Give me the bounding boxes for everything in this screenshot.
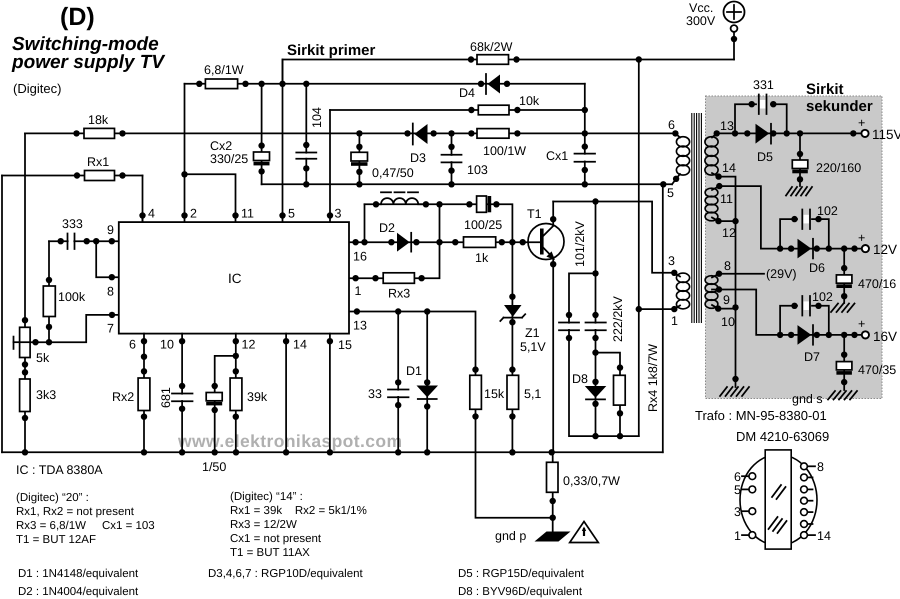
capacitor 331 loop [735, 78, 787, 133]
svg-text:220/160: 220/160 [816, 161, 861, 175]
svg-text:222/2kV: 222/2kV [611, 295, 625, 342]
IC TDA8380 body [119, 222, 349, 334]
svg-text:D1 : 1N4148/equivalent: D1 : 1N4148/equivalent [18, 568, 139, 580]
resistor 10k [478, 94, 540, 115]
svg-text:5k: 5k [36, 351, 50, 365]
terminal +16V [858, 317, 897, 344]
capacitor 101/2kV [559, 220, 587, 330]
wire: 12V output row (y=248.6) [777, 245, 862, 251]
wire: 33 cap column (x=398.2) [395, 312, 401, 456]
diode D4 [459, 74, 500, 100]
diode D1 [406, 364, 438, 399]
diode D7 [798, 325, 821, 364]
svg-text:10: 10 [160, 338, 174, 352]
svg-text:D3: D3 [410, 151, 426, 165]
svg-text:1: 1 [734, 529, 741, 543]
IC pin 15 label [338, 338, 352, 352]
svg-text:12V: 12V [873, 242, 897, 257]
wire: pin 8 to (29V) [719, 267, 797, 281]
svg-text:1: 1 [671, 314, 678, 328]
wire: IC pin 3 up to 10k row [327, 110, 333, 222]
resistor 39k [230, 378, 268, 411]
warning triangle [570, 522, 599, 543]
wire: 100k column (x=49) [46, 241, 52, 345]
svg-text:Rx2: Rx2 [112, 390, 134, 404]
wire: 0,33/0,7W column to gnd p (x=552.7) [550, 452, 556, 533]
svg-text:+: + [858, 317, 865, 331]
choke (transformer aux winding) [376, 192, 426, 204]
wire: Rx4 branch (x=620) [596, 353, 624, 440]
capacitor 103 [442, 155, 488, 177]
wire: 0,47/50 column (x=359.4) [356, 133, 362, 184]
capacitor 681 [159, 387, 193, 408]
IC pin 9 [107, 223, 114, 237]
diode D2 [379, 221, 411, 252]
svg-text:2: 2 [190, 207, 197, 221]
svg-text:14: 14 [293, 338, 307, 352]
transformer secondary winding 13-14 [705, 119, 736, 180]
wire: D1 column (x=427.2) [424, 312, 430, 456]
text diode equivalents row 2 [18, 586, 583, 598]
resistor 18k [84, 113, 115, 138]
svg-text:3: 3 [734, 505, 741, 519]
svg-text:15: 15 [338, 338, 352, 352]
terminal +115V [858, 116, 900, 142]
capacitor 102 (12V) loop [780, 204, 838, 249]
capacitor 104 [296, 107, 324, 159]
capacitor 470/16 [836, 249, 896, 303]
potentiometer 5k [20, 327, 50, 365]
svg-text:Cx2: Cx2 [210, 139, 232, 153]
capacitor Cx1 [546, 149, 595, 163]
IC pin 4 [143, 207, 156, 223]
resistor Rx2 [112, 378, 150, 411]
svg-text:100k: 100k [58, 290, 86, 304]
resistor 6,8/1W [204, 63, 244, 89]
IC pin 7 [107, 322, 114, 336]
svg-text:10k: 10k [519, 94, 540, 108]
transistor T1 [527, 202, 564, 261]
terminal +12V [858, 231, 897, 257]
wire: 222/2kV + D8 column (x=595.5) [592, 202, 598, 440]
wire: top rail from Sirkit primer corner to Vcc [283, 56, 735, 84]
wire: T1 collector to transformer pin 3 [550, 198, 674, 272]
svg-text:333: 333 [62, 217, 83, 231]
svg-text:Rx1 = 39k Rx2 = 5k1/1%: Rx1 = 39k Rx2 = 5k1/1% [230, 505, 367, 517]
transformer secondary winding 8-9-10 [705, 259, 735, 329]
wire: 6,8/1W / D4 row (y=83.8) [185, 81, 585, 87]
svg-text:470/16: 470/16 [858, 277, 896, 291]
svg-text:T1 = BUT 11AX: T1 = BUT 11AX [230, 547, 310, 559]
svg-text:8: 8 [817, 460, 824, 474]
wire: pin 12 stub [719, 220, 736, 222]
wire: T1 emitter down to bottom rail (x=553.2) [550, 258, 556, 452]
svg-text:0,47/50: 0,47/50 [372, 166, 414, 180]
resistor 100/1W [477, 129, 526, 158]
svg-text:3: 3 [335, 207, 342, 221]
svg-text:gnd p: gnd p [495, 529, 526, 543]
wire: pins 14+12+10 common to secondary ground (x=735.5) [719, 177, 739, 387]
capacitor 333 [62, 217, 83, 249]
wire: main rail 18k/D3/100 1W (y=133.4) to transformer pin 6 [25, 130, 675, 136]
svg-text:6,8/1W: 6,8/1W [204, 63, 244, 77]
IC pin 1 [355, 284, 362, 298]
svg-text:115V: 115V [872, 127, 900, 142]
svg-text:101/2kV: 101/2kV [573, 220, 587, 267]
svg-text:(Digitec): (Digitec) [13, 81, 61, 96]
svg-text:6: 6 [129, 338, 136, 352]
text note Digitec 20 [16, 492, 155, 546]
wire: 101/2kV snubber branch (x=569) [566, 273, 639, 436]
wire: 68k/2W rail lead dots [468, 56, 520, 62]
IC pin 14 column [283, 334, 307, 453]
ground secondary common [720, 387, 749, 396]
svg-text:104: 104 [310, 107, 324, 128]
svg-text:www.elektronikaspot.com: www.elektronikaspot.com [177, 431, 402, 451]
IC pin 12 column with 39k and 1/50 branch [212, 334, 256, 453]
svg-text:100/25: 100/25 [464, 218, 502, 232]
text Trafo part numbers [695, 408, 829, 444]
svg-text:+: + [858, 116, 865, 130]
transformer secondary winding 11-12 [705, 183, 736, 240]
svg-text:5: 5 [734, 483, 741, 497]
svg-text:D6: D6 [809, 261, 825, 275]
text diode equivalents row 1 [18, 568, 585, 580]
svg-text:300V: 300V [686, 14, 716, 28]
wire: 10k row (y=110) [330, 107, 588, 113]
wire: pin 10 stub [718, 308, 735, 310]
wire: bottom rail (y=452.3) [2, 449, 663, 455]
svg-text:11: 11 [241, 207, 254, 221]
svg-text:IC : TDA 8380A: IC : TDA 8380A [16, 463, 103, 477]
resistor 3k3 [20, 379, 57, 412]
wire: choke / 100,25 row (y=204.3) [365, 201, 513, 452]
wire: left frame vertical (x=2) [1, 176, 3, 453]
label Sirkit primer [287, 42, 376, 59]
svg-text:15k: 15k [484, 387, 505, 401]
svg-text:6: 6 [734, 470, 741, 484]
svg-text:7: 7 [107, 322, 114, 336]
wire: 103 cap column (x=451.5) [448, 133, 454, 184]
svg-text:1k: 1k [475, 251, 489, 265]
svg-text:T1 = BUT 12AF: T1 = BUT 12AF [16, 534, 96, 546]
svg-text:Trafo : MN-95-8380-01: Trafo : MN-95-8380-01 [695, 408, 827, 423]
svg-text:4: 4 [148, 207, 155, 221]
svg-text:103: 103 [467, 163, 488, 177]
svg-text:13: 13 [353, 319, 367, 333]
svg-text:3: 3 [668, 254, 675, 268]
svg-text:D2: D2 [379, 221, 395, 235]
resistor Rx4 1k8/7W [614, 344, 661, 412]
diode D3 [410, 124, 428, 166]
wire: 333/pin9 row (y=241.2) [49, 238, 119, 244]
capacitor 1/50 [202, 393, 226, 475]
wire: IC pin 1 row through Rx3 (y=278.2) [349, 201, 443, 281]
svg-text:Sirkit primer: Sirkit primer [287, 42, 376, 59]
svg-text:102: 102 [817, 204, 838, 218]
svg-text:14: 14 [817, 529, 831, 543]
wire: IC pin 13 row to 15k and gnd p (y=311.5) [349, 308, 553, 517]
IC pin 6 column with Rx2 [129, 334, 147, 453]
wire: pin 9 to D7 row [719, 290, 780, 335]
capacitor 220/160 [792, 133, 861, 186]
svg-text:8: 8 [724, 259, 731, 273]
resistor 0,33/0,7W [547, 462, 621, 492]
wire: 115V output row (y=133.4) [717, 130, 862, 136]
svg-text:11: 11 [720, 192, 733, 206]
wire: pin 11 to D6 row [719, 186, 780, 249]
svg-text:D5 : RGP15D/equivalent: D5 : RGP15D/equivalent [458, 568, 585, 580]
wire: long vertical from top rail to D8 loop (x=638.8) [636, 60, 642, 437]
svg-text:Cx1: Cx1 [546, 149, 568, 163]
watermark www.elektronikaspot.com [177, 431, 402, 451]
diode D8 [572, 372, 606, 399]
transformer primary winding 6-5 [667, 118, 690, 200]
wire: vertical snubber rail to bottom rail (x=662.8) [662, 184, 664, 452]
svg-text:Rx3 = 12/2W: Rx3 = 12/2W [230, 519, 297, 531]
svg-text:681: 681 [159, 387, 173, 408]
zener Z1 5,1V [500, 305, 546, 354]
svg-text:D7: D7 [804, 350, 820, 364]
wire: 16V output row (y=334.9) [777, 332, 862, 338]
svg-text:(D): (D) [60, 3, 95, 31]
IC pin 3 [335, 207, 342, 221]
capacitor 33 [368, 387, 409, 401]
svg-text:Cx1 = not present: Cx1 = not present [230, 533, 322, 545]
svg-text:D8: D8 [572, 372, 588, 386]
transformer pinout diagram [734, 450, 831, 549]
resistor Rx1 [85, 155, 115, 181]
svg-text:5,1: 5,1 [524, 387, 541, 401]
resistor 1k [464, 237, 496, 265]
secondary-side shaded region [706, 96, 883, 399]
wire: Cx2 column (x=261.6) [258, 84, 264, 185]
svg-text:sekunder: sekunder [806, 98, 873, 115]
text IC type [16, 463, 103, 477]
svg-text:Rx3: Rx3 [388, 287, 410, 301]
svg-text:D2 : 1N4004/equivalent: D2 : 1N4004/equivalent [18, 586, 139, 598]
capacitor 102 (16V) loop [780, 290, 833, 335]
svg-text:8: 8 [107, 285, 114, 299]
svg-text:Rx3 = 6,8/1W Cx1 = 103: Rx3 = 6,8/1W Cx1 = 103 [16, 520, 155, 532]
wire: IC pin 5 up to top rail [279, 60, 285, 223]
svg-text:5: 5 [667, 186, 674, 200]
svg-text:Rx4 1k8/7W: Rx4 1k8/7W [646, 344, 660, 412]
IC pin 2 [190, 207, 197, 221]
svg-text:12: 12 [722, 226, 736, 240]
svg-text:5: 5 [288, 207, 295, 221]
svg-text:DM 4210-63069: DM 4210-63069 [736, 429, 829, 444]
transformer core [692, 113, 702, 323]
svg-text:9: 9 [723, 293, 730, 307]
title Switching-mode power supply TV [11, 34, 165, 73]
svg-text:(Digitec) “20” :: (Digitec) “20” : [16, 492, 89, 504]
svg-text:68k/2W: 68k/2W [470, 40, 513, 54]
svg-text:gnd s: gnd s [792, 392, 823, 406]
label Sirkit sekunder [806, 81, 873, 115]
IC pin 13 [353, 319, 367, 333]
IC pin 10 column with 681 [160, 334, 185, 453]
svg-text:16: 16 [353, 250, 367, 264]
resistor 5,1 [507, 375, 541, 409]
svg-text:5,1V: 5,1V [520, 340, 546, 354]
svg-text:Sirkit: Sirkit [806, 81, 844, 98]
resistor 15k [470, 375, 505, 409]
svg-text:100/1W: 100/1W [483, 144, 526, 158]
node: Z1 / 5,1 column dots (x=512.4) [509, 294, 515, 456]
svg-text:102: 102 [812, 290, 833, 304]
svg-text:1: 1 [355, 284, 362, 298]
svg-text:D5: D5 [757, 150, 773, 164]
IC pin 15 column [327, 334, 333, 453]
resistor Rx3 [383, 273, 414, 301]
svg-text:D8 : BYV96D/equivalent: D8 : BYV96D/equivalent [458, 586, 583, 598]
svg-text:18k: 18k [88, 113, 109, 127]
svg-text:13: 13 [720, 119, 734, 133]
title (D) [60, 3, 95, 31]
svg-text:9: 9 [107, 223, 114, 237]
subtitle (Digitec) [13, 81, 61, 96]
svg-text:1/50: 1/50 [202, 460, 226, 474]
ground below 220/160 [786, 187, 812, 196]
svg-text:12: 12 [242, 338, 256, 352]
svg-text:Z1: Z1 [525, 326, 540, 340]
svg-text:330/25: 330/25 [210, 152, 248, 166]
svg-text:Rx1: Rx1 [87, 155, 109, 169]
ground below 470/16 [831, 304, 855, 313]
diode D6 [798, 239, 826, 275]
wire: transformer pin 1 return (y=309.1) [639, 308, 675, 310]
IC pin 16 [353, 250, 367, 264]
svg-text:10: 10 [721, 315, 735, 329]
svg-text:331: 331 [753, 78, 774, 92]
wire: IC pin 16 row to T1 base (y=242.2) [349, 239, 540, 245]
svg-text:D4: D4 [459, 86, 475, 100]
svg-text:0,33/0,7W: 0,33/0,7W [563, 474, 620, 488]
svg-text:power supply TV: power supply TV [11, 52, 165, 73]
svg-text:(29V): (29V) [766, 267, 797, 281]
svg-text:D1: D1 [406, 364, 422, 378]
svg-text:Vcc.: Vcc. [689, 1, 713, 15]
svg-text:(Digitec) “14” :: (Digitec) “14” : [230, 491, 303, 503]
5k wiper line through pot body [14, 337, 20, 349]
svg-text:IC: IC [228, 271, 242, 286]
svg-text:33: 33 [368, 387, 382, 401]
ground gnd s below 470/35 [792, 391, 857, 406]
wire: Rx1 row (y=175.5) [2, 172, 143, 178]
capacitor 470/35 [836, 335, 896, 390]
diode D5 [756, 124, 774, 164]
IC pin 8 [107, 285, 114, 299]
ground gnd p (primary) [495, 529, 571, 543]
transformer primary winding 3-1 [668, 254, 690, 328]
capacitor Cx2 330/25 [210, 139, 270, 166]
text note Digitec 14 [230, 491, 367, 559]
IC pin 5 [288, 207, 295, 221]
wire: 104 cap column (x=306.3) [303, 84, 309, 185]
capacitor 0,47/50 [351, 152, 414, 180]
wire: D4/Cx1 column (x=584.8) [582, 84, 588, 185]
svg-text:Rx1, Rx2 = not present: Rx1, Rx2 = not present [16, 506, 135, 518]
capacitor 222/2kV [586, 295, 626, 342]
svg-text:3k3: 3k3 [36, 388, 56, 402]
IC pin 11 [241, 207, 254, 221]
wire: snubber return rail (y=184.3) to transformer pin 5 [262, 179, 676, 188]
wire: IC pin 7 to 5k wiper [20, 312, 119, 346]
svg-text:T1: T1 [527, 207, 542, 221]
svg-text:39k: 39k [247, 390, 268, 404]
wire: 5k/3k3 column (x=25) [22, 133, 28, 455]
capacitor 100/25 [464, 196, 502, 232]
svg-text:16V: 16V [873, 329, 897, 344]
svg-text:14: 14 [722, 161, 736, 175]
Vcc 300V source [686, 1, 745, 60]
wire: IC pin 8 jog to 333 row [96, 241, 119, 280]
wire: IC pin 2 up to 6,8/1W row, branch to pin 11 [181, 84, 238, 222]
svg-text:D3,4,6,7 : RGP10D/equivalent: D3,4,6,7 : RGP10D/equivalent [208, 568, 364, 580]
svg-text:6: 6 [668, 118, 675, 132]
resistor 68k/2W [470, 40, 513, 64]
svg-text:+: + [858, 231, 865, 245]
resistor 100k [43, 286, 86, 317]
svg-text:470/35: 470/35 [858, 363, 896, 377]
wire: IC pin 4 up to Rx1 [139, 176, 145, 223]
